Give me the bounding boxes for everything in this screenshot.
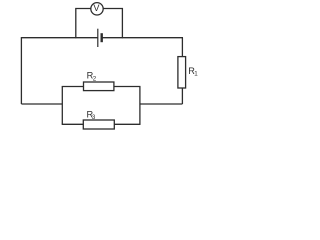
- wire mid left horizontal: [21, 103, 62, 105]
- wire right vertical: [181, 38, 183, 104]
- resistor R3: [83, 120, 114, 129]
- wire mid right horizontal: [140, 103, 183, 105]
- resistor R1: [178, 57, 186, 88]
- resistor R2: [84, 82, 114, 91]
- wire voltmeter branch right drop: [103, 9, 122, 39]
- wire main top right segment: [102, 37, 183, 39]
- wire left vertical: [20, 37, 22, 104]
- wire parallel bottom branch: [62, 123, 141, 125]
- wire parallel box right bar: [139, 87, 141, 125]
- wire voltmeter branch left drop: [76, 9, 91, 39]
- wire parallel box left bar: [61, 87, 63, 125]
- battery cell negative plate: [100, 33, 102, 42]
- voltmeter V1: [91, 3, 103, 15]
- battery cell positive plate: [97, 29, 99, 47]
- wire main top left segment: [21, 37, 97, 39]
- svg-text:V: V: [93, 3, 100, 13]
- wire parallel top branch: [62, 86, 141, 88]
